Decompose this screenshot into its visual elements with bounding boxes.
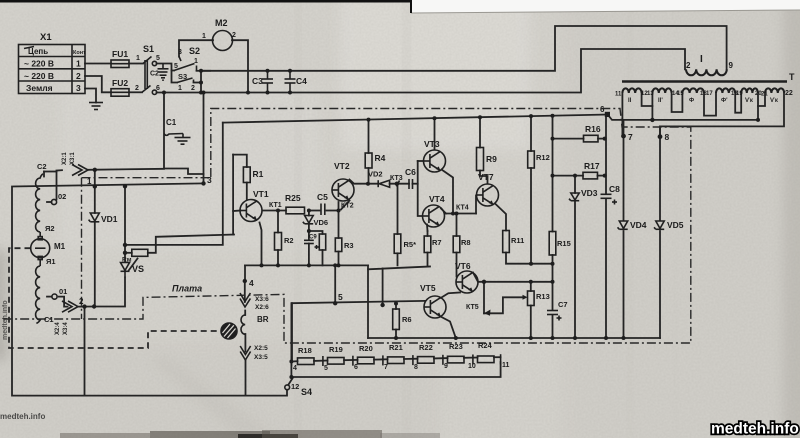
- svg-text:2: 2: [191, 85, 195, 92]
- resistor R3: [335, 238, 342, 252]
- wire: R14 loop: [125, 244, 156, 246]
- capacitor C4: [285, 71, 296, 93]
- winding III: [682, 88, 704, 93]
- svg-text:R21: R21: [389, 343, 403, 352]
- terminal O1: [52, 294, 57, 299]
- svg-text:R25: R25: [285, 193, 301, 203]
- svg-text:VD5: VD5: [667, 220, 684, 230]
- wire: node5 wire to VT5 base: [292, 301, 425, 303]
- svg-text:Цепь: Цепь: [28, 47, 48, 56]
- svg-text:Rм: Rм: [122, 257, 132, 264]
- svg-text:FU1: FU1: [112, 49, 128, 59]
- wire: VT7 base: [475, 196, 477, 214]
- wire: R26 branch: [309, 231, 323, 234]
- wire: X1 pin2 to FU2 to S1 lower: [85, 76, 111, 92]
- svg-text:X3:1: X3:1: [70, 152, 76, 165]
- svg-text:X3:5: X3:5: [254, 354, 268, 361]
- wire: node4 column / BR: [244, 281, 246, 302]
- R13 wiper arrowhead: [523, 295, 528, 300]
- switch S2: [174, 57, 197, 71]
- wire: rail sloped: [223, 115, 608, 123]
- svg-text:S1: S1: [143, 44, 154, 54]
- svg-text:19: 19: [736, 91, 743, 97]
- svg-text:R4: R4: [375, 153, 386, 163]
- svg-text:1: 1: [178, 85, 182, 92]
- wire: KT5 drop x=484: [483, 282, 485, 314]
- tacho BR rotor: [221, 323, 237, 339]
- svg-text:R20: R20: [359, 344, 373, 353]
- svg-text:VD4: VD4: [630, 220, 647, 230]
- svg-text:R19: R19: [329, 345, 343, 354]
- wire: rail corner drop x=222.8: [156, 123, 223, 245]
- svg-text:medteh.info: medteh.info: [711, 421, 799, 438]
- svg-text:1: 1: [76, 59, 81, 69]
- svg-text:VT2: VT2: [334, 161, 350, 171]
- resistor R9: [477, 148, 484, 171]
- wire: O2 tap: [47, 201, 52, 203]
- wire: R6 column: [395, 304, 397, 310]
- svg-text:2: 2: [232, 32, 236, 39]
- wire: R11 bottom row y=263.7: [506, 253, 553, 264]
- resistor R2: [275, 233, 282, 251]
- svg-text:5: 5: [174, 63, 178, 70]
- connector X1 table: [19, 45, 86, 94]
- wire: VT1 emitter drop: [260, 223, 262, 266]
- svg-text:C3: C3: [252, 76, 263, 86]
- svg-text:Ѵк: Ѵк: [745, 98, 753, 104]
- svg-text:VT1: VT1: [253, 189, 269, 199]
- capacitor C2 with ground: [158, 64, 169, 81]
- svg-text:13: 13: [647, 91, 654, 97]
- resistor R16: [584, 135, 599, 142]
- svg-text:C5: C5: [317, 192, 328, 202]
- svg-text:11: 11: [615, 92, 622, 98]
- svg-text:1: 1: [194, 58, 198, 65]
- svg-text:M2: M2: [215, 18, 228, 28]
- switch S3: [177, 78, 194, 83]
- svg-text:1: 1: [136, 55, 140, 62]
- svg-text:R13: R13: [536, 292, 550, 301]
- wire: node6 column x=606: [605, 115, 607, 195]
- wire: KT4 wire: [445, 213, 476, 215]
- wire: X2:1 horizontal y=170: [44, 171, 57, 173]
- wire: drop x=382.6 to node5 wire: [382, 269, 384, 307]
- svg-text:R23: R23: [449, 342, 463, 351]
- wire: R12 column: [530, 116, 532, 151]
- wire: S1 pin5 to C2/S2: [157, 64, 175, 71]
- wire: X1 pin1 to FU1 to S1: [85, 63, 111, 65]
- connector arrows X3:6 X2:6 (down): [240, 293, 250, 307]
- svg-text:8: 8: [665, 132, 670, 142]
- svg-text:C1: C1: [166, 118, 177, 127]
- svg-text:11: 11: [502, 362, 510, 369]
- wire: R8 column: [456, 214, 458, 237]
- svg-text:9: 9: [729, 61, 734, 70]
- wire: VT6 emitter to VT5 collector: [441, 293, 460, 298]
- small watermark left edge rotated: [2, 300, 9, 340]
- switch S4 contact: [285, 385, 290, 390]
- svg-text:I: I: [700, 54, 703, 65]
- motor M2: [213, 31, 233, 51]
- wire: S4 chain feed x=291.4: [290, 303, 292, 377]
- svg-text:7: 7: [384, 364, 388, 371]
- svg-text:R18: R18: [298, 346, 312, 355]
- svg-text:Плата: Плата: [172, 284, 202, 294]
- transistor VT6: [456, 271, 478, 293]
- winding Vk: [765, 88, 784, 93]
- transistor VT3: [424, 150, 446, 172]
- KT5 arrow: [484, 310, 491, 316]
- wire: C1 column x=164: [164, 93, 204, 175]
- chain tap ticks: [291, 354, 500, 366]
- wire: resistor chain baseline: [291, 360, 297, 362]
- capacitor C1 with ground: [164, 134, 191, 145]
- svg-text:22: 22: [785, 90, 793, 97]
- svg-text:~ 220 В: ~ 220 В: [24, 59, 54, 69]
- svg-text:S2: S2: [189, 46, 200, 56]
- svg-text:5: 5: [324, 365, 328, 372]
- wire: bus drop x=368: [367, 265, 369, 338]
- svg-text:02: 02: [58, 192, 66, 201]
- svg-text:3: 3: [207, 175, 212, 185]
- resistor R14: [132, 249, 148, 256]
- diode VD6 zener: [303, 216, 313, 224]
- transistor VT5: [424, 296, 446, 318]
- svg-text:4: 4: [249, 278, 254, 288]
- resistor R17: [583, 172, 598, 179]
- plata boundary main: [2, 109, 691, 344]
- svg-text:medteh.info: medteh.info: [0, 412, 45, 421]
- diode VD5 zener: [654, 221, 664, 229]
- wire: w5-w6 link5: [758, 93, 765, 106]
- svg-text:FU2: FU2: [112, 78, 128, 88]
- svg-text:VT5: VT5: [420, 283, 436, 293]
- svg-text:S3: S3: [178, 72, 187, 81]
- svg-text:2: 2: [686, 61, 691, 70]
- wire: node6 to transformer bus: [608, 115, 758, 120]
- svg-text:17: 17: [706, 91, 713, 97]
- wire: R1 top tee to VT1 base: [233, 155, 247, 167]
- svg-text:X2:1: X2:1: [62, 152, 68, 165]
- svg-text:Конт: Конт: [73, 50, 86, 56]
- svg-text:Ф': Ф': [721, 98, 728, 104]
- transistor VT1: [240, 200, 262, 222]
- wire: VD6 column: [308, 211, 310, 216]
- svg-text:12: 12: [291, 382, 299, 391]
- scanner edge: white wedge top right with paper edge line: [0, 0, 800, 13]
- wire: VT3/VT4 base link: [418, 161, 422, 216]
- motor M1 armature: [31, 232, 50, 266]
- svg-text:21: 21: [761, 92, 768, 98]
- svg-text:4: 4: [293, 365, 297, 372]
- svg-text:8: 8: [414, 364, 418, 371]
- svg-text:C2: C2: [150, 71, 159, 78]
- thyristor VS: [121, 263, 130, 278]
- test point KT3 tick: [397, 181, 400, 187]
- svg-text:C7: C7: [558, 300, 568, 309]
- tacho BR coil: [241, 315, 245, 334]
- svg-text:VT6: VT6: [455, 261, 471, 271]
- wire: column x=552.5: [552, 116, 554, 232]
- svg-text:VT4: VT4: [429, 194, 445, 204]
- svg-text:Земля: Земля: [26, 83, 53, 93]
- wire: node5 riser x=335.2: [334, 265, 336, 303]
- svg-text:R22: R22: [419, 343, 433, 352]
- svg-text:5: 5: [338, 292, 343, 302]
- wire: emitter bus y=265.4: [245, 264, 368, 266]
- svg-text:15: 15: [677, 91, 684, 97]
- wire: R7 column: [427, 231, 429, 236]
- field winding Ya2: [36, 174, 43, 232]
- wire: M2 pin2 down to bus B: [232, 40, 248, 92]
- svg-text:X2:6: X2:6: [255, 304, 269, 311]
- wire: R13 column: [530, 282, 532, 291]
- svg-text:КТ3: КТ3: [390, 175, 403, 182]
- svg-text:2: 2: [135, 85, 139, 92]
- wire: node3 long wire to left edge: [12, 183, 287, 395]
- wire: w5 right to bus: [757, 93, 759, 120]
- svg-text:VS: VS: [132, 264, 144, 274]
- svg-text:R7: R7: [432, 238, 442, 247]
- winding II': [652, 88, 671, 93]
- connector arrows X2:4 X3:4: [62, 301, 78, 312]
- svg-text:X2:4: X2:4: [55, 322, 61, 335]
- fuse FU2: [111, 89, 129, 97]
- wire: VD5 column: [659, 231, 661, 338]
- svg-text:C9: C9: [309, 235, 317, 241]
- svg-text:5: 5: [156, 55, 160, 62]
- resistor chain R18-R24: [298, 356, 495, 365]
- svg-text:VT3: VT3: [424, 139, 440, 149]
- winding III': [716, 88, 735, 93]
- field winding Ya1: [36, 266, 41, 323]
- wire: R16 row: [553, 138, 584, 140]
- resistor R1: [243, 167, 250, 183]
- svg-text:R8: R8: [461, 238, 471, 247]
- svg-text:КТ2: КТ2: [341, 203, 354, 210]
- svg-text:VD3: VD3: [581, 188, 598, 198]
- wire: VT2 emitter stub: [341, 201, 350, 210]
- svg-text:R9: R9: [486, 154, 497, 164]
- svg-text:01: 01: [59, 287, 67, 296]
- capacitor C6: [409, 179, 413, 189]
- svg-text:6: 6: [354, 364, 358, 371]
- svg-text:КТ1: КТ1: [269, 202, 282, 209]
- mechanical link dashed: [9, 248, 221, 348]
- svg-text:Ѵк: Ѵк: [770, 98, 778, 104]
- wire: VD4 column: [623, 231, 625, 338]
- wire: VT6 collector line y=281.8: [473, 273, 553, 282]
- resistor R4: [365, 153, 372, 168]
- transformer core: [622, 80, 787, 82]
- wire: node8 column top: [659, 126, 661, 136]
- wire: VD3 column x=575: [574, 176, 576, 193]
- terminal O2: [51, 199, 56, 204]
- svg-text:C6: C6: [405, 167, 416, 177]
- svg-text:7: 7: [628, 132, 633, 142]
- fuse FU1: [111, 60, 129, 68]
- resistor R7: [424, 236, 431, 253]
- svg-text:R6: R6: [402, 315, 412, 324]
- svg-text:X2:5: X2:5: [254, 345, 268, 352]
- wire: VT3 emitter to KT4 wire: [442, 170, 454, 214]
- wire: VS column x=125: [124, 186, 126, 262]
- svg-text:КТ4: КТ4: [456, 205, 469, 212]
- svg-text:R11: R11: [511, 236, 524, 245]
- wire: R5 column: [397, 184, 399, 234]
- svg-text:R16: R16: [585, 124, 601, 134]
- svg-text:VD6: VD6: [314, 218, 329, 227]
- wire: transformer w1 left: [622, 93, 623, 136]
- connector arrows X2:1 X3:1: [72, 165, 88, 176]
- svg-text:VT7: VT7: [478, 172, 494, 182]
- svg-text:3: 3: [76, 83, 81, 93]
- wire: VS gate: [129, 259, 138, 271]
- svg-text:R12: R12: [536, 153, 550, 162]
- svg-text:9: 9: [444, 363, 448, 370]
- wire: node2 drop x=84.5: [84, 307, 86, 396]
- capacitor C8 electrolytic: [601, 194, 618, 204]
- resistor R8: [453, 236, 460, 253]
- wire: VT2 base: [338, 202, 340, 211]
- svg-text:R5*: R5*: [404, 240, 417, 249]
- wire: S4 blade: [289, 378, 294, 385]
- svg-text:1: 1: [202, 33, 206, 40]
- capacitor C3: [262, 71, 273, 93]
- capacitor C7 electrolytic: [547, 311, 562, 321]
- svg-text:medteh.info: medteh.info: [2, 300, 9, 340]
- resistor R6: [393, 309, 400, 330]
- resistor R26: [319, 234, 325, 250]
- svg-text:II': II': [658, 98, 663, 104]
- resistor R11: [503, 231, 510, 253]
- svg-text:~ 220 В: ~ 220 В: [24, 71, 54, 81]
- wire: KT5 Z-path to R13 wiper: [484, 297, 525, 313]
- wire: X1 pin3 to ground: [85, 89, 96, 103]
- resistor R12: [528, 151, 535, 168]
- wire: w6 right to node8: [660, 93, 784, 126]
- svg-text:2: 2: [79, 297, 84, 306]
- wire: junction vertical x=201: [200, 71, 202, 93]
- wire: VD1 column x=95: [94, 170, 96, 213]
- svg-text:S4: S4: [301, 387, 312, 397]
- svg-text:10: 10: [468, 363, 476, 370]
- wire: VT2 collector to VD2/KT3/C6: [350, 180, 379, 184]
- svg-text:Я2: Я2: [45, 224, 55, 233]
- svg-text:C8: C8: [609, 184, 620, 194]
- left chassis box: [82, 177, 211, 179]
- svg-text:X3:6: X3:6: [255, 296, 269, 303]
- svg-text:3: 3: [178, 49, 182, 56]
- small watermark bottom left: [0, 412, 45, 421]
- resistor R13: [528, 291, 535, 306]
- wire: S3 branch: [172, 71, 178, 83]
- transistor VT2: [332, 179, 354, 201]
- diode VD4 zener: [618, 221, 628, 229]
- svg-text:II: II: [628, 98, 632, 104]
- wire: neutral bus B y=92.5 to transformer: [157, 49, 686, 93]
- wire: M2 pin1 to S2 pin3: [179, 40, 213, 56]
- svg-text:M1: M1: [54, 242, 66, 251]
- svg-text:Я1: Я1: [46, 257, 56, 266]
- transistor VT7: [477, 184, 499, 206]
- wire: O1 tap to arrows: [47, 296, 51, 298]
- capacitor C9 electrolytic: [304, 240, 319, 249]
- svg-text:Ф: Ф: [689, 98, 694, 104]
- wire: bottom bus y=338: [368, 337, 660, 339]
- winding II: [622, 88, 641, 93]
- svg-text:X1: X1: [40, 32, 52, 43]
- svg-text:R15: R15: [557, 239, 571, 248]
- capacitor C5: [321, 204, 325, 216]
- wire: VT7 emitter to R11: [495, 204, 506, 231]
- wire: R9/VT7 column: [479, 117, 481, 147]
- diode VD1: [89, 213, 100, 222]
- svg-text:C2: C2: [37, 162, 47, 171]
- svg-text:R2: R2: [284, 236, 294, 245]
- svg-text:Т: Т: [789, 72, 795, 82]
- svg-text:VD1: VD1: [101, 214, 118, 224]
- switch S1: [142, 57, 157, 95]
- svg-text:1: 1: [87, 177, 92, 186]
- svg-text:BR: BR: [257, 315, 269, 324]
- svg-text:R17: R17: [584, 161, 600, 171]
- svg-text:R24: R24: [478, 341, 493, 350]
- wire: tap11 return y=377: [291, 362, 500, 377]
- svg-text:R3: R3: [344, 241, 354, 250]
- wire: base wire y=210.5 KT1-R25-C5-KT2: [263, 210, 286, 212]
- resistor R25: [286, 207, 305, 214]
- diode VD2: [378, 180, 389, 187]
- svg-text:C4: C4: [296, 76, 307, 86]
- wire: w1 right link1: [642, 93, 653, 106]
- svg-text:КТ5: КТ5: [466, 304, 479, 311]
- wire: node3 column x=203.5: [203, 93, 205, 184]
- bottom edge dark smudges: [60, 430, 440, 438]
- wire: R17 row: [553, 175, 584, 177]
- winding IVk: [741, 88, 758, 93]
- wire: w4 right link4: [735, 93, 741, 113]
- ground at X1: [89, 103, 103, 110]
- wire: w2 right link2: [672, 93, 683, 112]
- svg-text:VD2: VD2: [368, 170, 383, 179]
- connector arrows X2:5 X3:5 (down): [240, 346, 250, 360]
- wire: w3 right link3: [704, 93, 716, 116]
- wire: S2 pin1 to junction: [197, 70, 211, 72]
- wire: VT5 emitter to bus: [442, 317, 456, 338]
- wire: VT4 emitter: [426, 225, 429, 232]
- wire: R2 column: [277, 211, 279, 233]
- transistor VT4: [423, 205, 445, 227]
- wire: mains bus A y=70.8 to transformer: [201, 26, 727, 71]
- wire: VT3 collector to rail: [434, 118, 436, 149]
- transformer primary winding I: [686, 69, 727, 75]
- wire: R3 column: [338, 211, 340, 239]
- svg-text:6: 6: [600, 105, 605, 114]
- svg-text:C1: C1: [44, 315, 54, 324]
- wire: R4 column: [368, 120, 370, 153]
- svg-text:R1: R1: [253, 169, 264, 179]
- watermark medteh.info bottom right: [711, 421, 799, 438]
- wire: VT4 collector: [441, 209, 446, 214]
- svg-text:6: 6: [156, 85, 160, 92]
- diode VD3 zener: [569, 193, 579, 201]
- resistor R5: [394, 234, 401, 253]
- svg-text:2: 2: [76, 71, 81, 81]
- resistor R15: [549, 232, 556, 256]
- svg-text:X3:4: X3:4: [63, 322, 69, 335]
